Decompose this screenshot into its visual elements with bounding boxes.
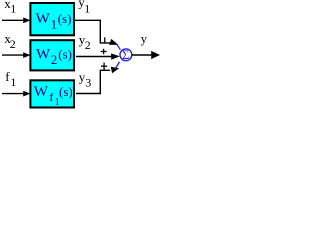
svg-text:Σ: Σ <box>122 48 129 62</box>
plus sign top input <box>104 37 106 43</box>
svg-text:1: 1 <box>51 16 58 31</box>
wire y3 blue segment <box>115 62 119 69</box>
summing junction U1 <box>120 48 132 62</box>
node x2 label <box>4 31 15 51</box>
node y1 label <box>78 0 90 15</box>
svg-text:f: f <box>49 90 53 104</box>
svg-text:W: W <box>36 11 51 27</box>
node y3 label <box>79 70 92 90</box>
svg-text:(s): (s) <box>59 84 73 99</box>
wire y3 <box>76 70 110 93</box>
wire y1 <box>75 20 110 43</box>
svg-text:W: W <box>36 47 51 63</box>
svg-text:W: W <box>34 84 49 100</box>
wire input f1 <box>2 93 25 95</box>
block Wf1 <box>30 80 74 108</box>
node f1 label <box>5 69 16 89</box>
svg-text:2: 2 <box>10 37 16 51</box>
svg-text:(s): (s) <box>58 47 72 62</box>
plus sign middle input <box>101 49 107 54</box>
wire y1 blue segment <box>117 44 121 50</box>
block W1 <box>30 3 74 35</box>
wire y2 <box>76 56 112 58</box>
plus sign bottom input <box>101 63 107 70</box>
svg-text:y: y <box>141 32 148 46</box>
svg-text:3: 3 <box>85 76 91 90</box>
svg-text:2: 2 <box>85 38 91 52</box>
svg-text:1: 1 <box>84 1 90 15</box>
svg-text:1: 1 <box>10 75 16 89</box>
wire output y <box>132 54 152 56</box>
wire input x2 <box>2 54 25 56</box>
node y2 label <box>79 32 91 52</box>
svg-text:2: 2 <box>51 52 58 67</box>
wire input x1 <box>2 19 25 21</box>
svg-text:(s): (s) <box>58 11 72 26</box>
block W2 <box>30 40 74 70</box>
node x1 label <box>4 0 16 16</box>
svg-text:1: 1 <box>10 2 16 16</box>
